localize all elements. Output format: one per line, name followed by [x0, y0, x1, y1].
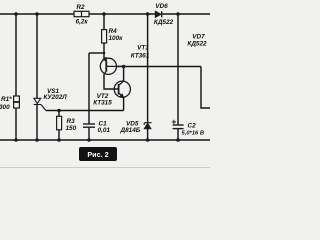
svg-text:100к: 100к [109, 35, 124, 42]
node top R4 [102, 12, 106, 16]
node VT1 emitter / R4 [103, 52, 106, 55]
wire R4 top vertical [103, 14, 105, 30]
transistor VT1 [100, 57, 123, 75]
wire branch VT1 emitter to C1 [89, 52, 104, 54]
wire VT2 emitter down [123, 97, 125, 111]
svg-text:VT1: VT1 [137, 44, 149, 51]
wire top rail middle [89, 13, 155, 15]
svg-text:C2: C2 [188, 123, 197, 130]
wire R3 top [58, 111, 60, 117]
wire R1 branch vertical [15, 14, 17, 140]
transistor VT2 [114, 81, 130, 98]
node bottom R1 [14, 138, 18, 142]
capacitor C1 [83, 124, 95, 127]
zener VD5 [144, 123, 151, 129]
capacitor C2 [173, 125, 184, 129]
node bottom C2 [176, 138, 180, 142]
svg-text:6,2к: 6,2к [75, 19, 88, 26]
resistor R4 [102, 30, 107, 43]
resistor R1 [14, 96, 20, 108]
wire R4 bottom to VT1 emitter [103, 43, 105, 59]
svg-text:КД522: КД522 [154, 19, 174, 26]
wire bottom rail [0, 139, 210, 141]
svg-text:R1*: R1* [1, 96, 12, 103]
svg-text:КТ315: КТ315 [93, 99, 112, 106]
wire gate node horizontal [46, 110, 124, 112]
node bottom R3 [57, 138, 61, 142]
resistor R3 [57, 116, 62, 130]
wire VS1 cathode vertical [36, 105, 38, 141]
wire VT1 collector to VT2 base [104, 74, 119, 89]
node bottom VS1 [35, 138, 39, 142]
svg-text:VD6: VD6 [155, 3, 168, 10]
node gate R3 [57, 109, 61, 113]
node top R1 [14, 12, 18, 16]
wire C2 vertical top [177, 14, 179, 125]
svg-text:КУ202Л: КУ202Л [43, 94, 67, 101]
wire VT2 collector up [123, 67, 125, 82]
node top C2 [176, 12, 180, 16]
C2 plus sign [172, 120, 176, 124]
wire output right corner [201, 67, 210, 109]
node bottom C1 [87, 138, 91, 142]
wire VD5 vertical bottom [147, 128, 149, 140]
wire top rail left [0, 13, 74, 15]
thyristor VS1 [34, 98, 46, 110]
svg-text:КД522: КД522 [187, 41, 207, 48]
node top VD5 [146, 12, 150, 16]
svg-text:R2: R2 [76, 4, 85, 11]
wire VS1 anode vertical [36, 14, 38, 98]
svg-text:R3: R3 [67, 118, 76, 125]
wire C1 top vertical [88, 53, 90, 124]
svg-text:0,01: 0,01 [98, 127, 111, 134]
svg-text:150: 150 [66, 125, 77, 132]
node top VS1 [35, 12, 39, 16]
wire top rail right [162, 13, 210, 15]
node VT1 base / VT2 collector [122, 65, 126, 69]
wire VT1 base node horizontal [117, 66, 201, 68]
svg-text:5,0*16 В: 5,0*16 В [182, 131, 205, 137]
wire VD5 vertical top [147, 14, 149, 123]
svg-text:Д814Б: Д814Б [120, 127, 141, 134]
diode VD6 [155, 11, 161, 17]
svg-text:Рис. 2: Рис. 2 [87, 150, 108, 159]
wire C2 vertical bottom [177, 129, 179, 140]
svg-text:VD7: VD7 [192, 34, 205, 41]
wire R3 bottom [58, 130, 60, 140]
caption box [79, 147, 117, 161]
node bottom VD5 [146, 138, 150, 142]
svg-text:300: 300 [0, 104, 10, 111]
svg-text:КТ361: КТ361 [131, 52, 150, 59]
resistor R2 [74, 11, 89, 16]
faint page line [0, 166, 210, 168]
wire C1 bottom vertical [88, 127, 90, 140]
